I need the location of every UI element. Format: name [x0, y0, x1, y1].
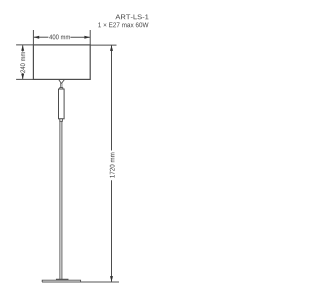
label 240 mm (rotated) [20, 52, 25, 73]
decorative cylinder [59, 89, 65, 119]
arrow down (1720 mm) [110, 276, 113, 282]
arrow down (240 mm) [21, 74, 24, 80]
label 400 mm [49, 35, 70, 40]
arrow left (400 mm) [34, 36, 40, 39]
dimension line 400 mm left segment [34, 36, 49, 38]
model label ART-LS-1 [115, 14, 148, 19]
dimension line 1720 mm bottom segment [111, 180, 113, 282]
lamp holder V connector [59, 80, 64, 84]
lower neck ring [60, 119, 63, 122]
arrow right (400 mm) [84, 36, 90, 39]
lamp base plinth [42, 280, 80, 282]
lamp spec 1 x E27 max 60W [98, 22, 148, 27]
floor line [42, 281, 119, 283]
upper stem [61, 84, 62, 88]
dimension line 400 mm right segment [70, 36, 89, 38]
lamp pole [59, 121, 61, 279]
dimension line 240 mm bottom segment [22, 73, 24, 79]
extension line top (240 mm) [16, 44, 33, 46]
extension tick right (400 mm) [89, 30, 91, 45]
base hub [56, 279, 68, 280]
lampshade rectangle [33, 45, 90, 80]
label 1720 mm (rotated) [110, 153, 115, 178]
extension line bottom (240 mm) [16, 78, 33, 80]
extension line top (1720 mm) [90, 44, 116, 46]
dimension line 1720 mm top segment [111, 45, 113, 150]
dimension line 240 mm top segment [22, 45, 24, 51]
arrow up (1720 mm) [110, 45, 113, 51]
stem cap ring [60, 88, 63, 90]
extension tick left (400 mm) [32, 30, 34, 45]
arrow up (240 mm) [21, 45, 24, 51]
